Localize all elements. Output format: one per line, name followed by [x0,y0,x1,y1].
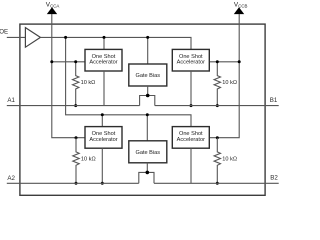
VCCB arrow [234,7,244,14]
svg-text:A2: A2 [7,175,15,182]
junction [103,36,106,39]
VCCA supply wire (down to channel rails) [52,14,85,138]
B1 line wire [155,105,279,107]
wire accelerator A1 output to A1 line [103,71,105,106]
OE pin wire [7,36,26,38]
VCCB rail channel 1 wire [209,61,239,63]
VCCA label [46,2,60,9]
wire accelerator A2 output to A2 line [101,148,103,183]
A1 line wire [7,105,140,107]
svg-text:Gate Bias: Gate Bias [136,73,161,79]
chip boundary box [20,24,265,195]
wire OE to gate bias 1 [147,37,149,64]
svg-text:OE: OE [0,28,8,35]
resistor R4 10 kOhm (channel 2, B side) [214,138,220,185]
svg-text:CCA: CCA [50,4,59,9]
resistor R1 10 kOhm (channel 1, A side) [73,60,79,107]
wire accelerator B2 output to B2 line [190,148,192,183]
svg-text:10 kΩ: 10 kΩ [222,80,237,86]
svg-text:10 kΩ: 10 kΩ [81,157,96,163]
junction [146,36,149,39]
svg-text:Accelerator: Accelerator [89,60,117,66]
one shot accelerator box (channel 2, A side) [85,127,122,149]
VCCA arrow [47,7,57,14]
B2 line wire [154,182,279,184]
OE branch wire to channel 2 [66,37,191,126]
wire accelerator B1 output to B1 line [190,71,192,106]
VCCA rail channel 1 wire [52,61,85,63]
wire OE to one shot accelerator A2 [101,115,103,127]
wire OE to gate bias 2 [146,115,148,141]
junction VCCB/rail1 [238,60,241,63]
pass transistor Q1 (channel 1) [140,86,155,106]
gate bias box (channel 1) [129,64,167,86]
junction VCCA/rail1 [50,60,53,63]
svg-text:Accelerator: Accelerator [177,60,205,66]
one shot accelerator box (channel 2, B side) [172,127,209,149]
svg-text:B2: B2 [270,174,278,181]
svg-text:10 kΩ: 10 kΩ [222,157,237,163]
svg-text:Accelerator: Accelerator [177,137,205,143]
svg-text:A1: A1 [7,97,15,104]
svg-text:B1: B1 [270,97,278,104]
junction [101,182,104,185]
junction [101,113,104,116]
gate bias box (channel 2) [129,141,167,163]
wire OE to one shot accelerator A1 [103,37,105,49]
OE rail wire (buffer output to channel 1 B-side) [40,37,191,49]
one shot accelerator box (channel 1, A side) [85,49,122,71]
resistor R2 10 kOhm (channel 1, B side) [214,60,220,107]
buffer U1 (OE input buffer) [25,28,40,48]
pass transistor Q2 (channel 2) [139,163,154,184]
junction VCCA/ch2 resistor [75,136,78,139]
svg-text:CCB: CCB [238,4,247,9]
one shot accelerator box (channel 1, B side) [172,49,209,71]
svg-text:Accelerator: Accelerator [89,137,117,143]
junction OE rail/branch [64,36,67,39]
VCCB label [234,2,248,9]
junction [146,113,149,116]
VCCB supply wire (down to channel rails) [209,14,239,138]
junction [190,104,193,107]
svg-text:Gate Bias: Gate Bias [136,150,161,156]
junction VCCB/ch2 resistor [216,136,219,139]
svg-text:10 kΩ: 10 kΩ [81,80,96,86]
resistor R3 10 kOhm (channel 2, A side) [73,138,79,185]
A2 line wire [7,182,139,184]
